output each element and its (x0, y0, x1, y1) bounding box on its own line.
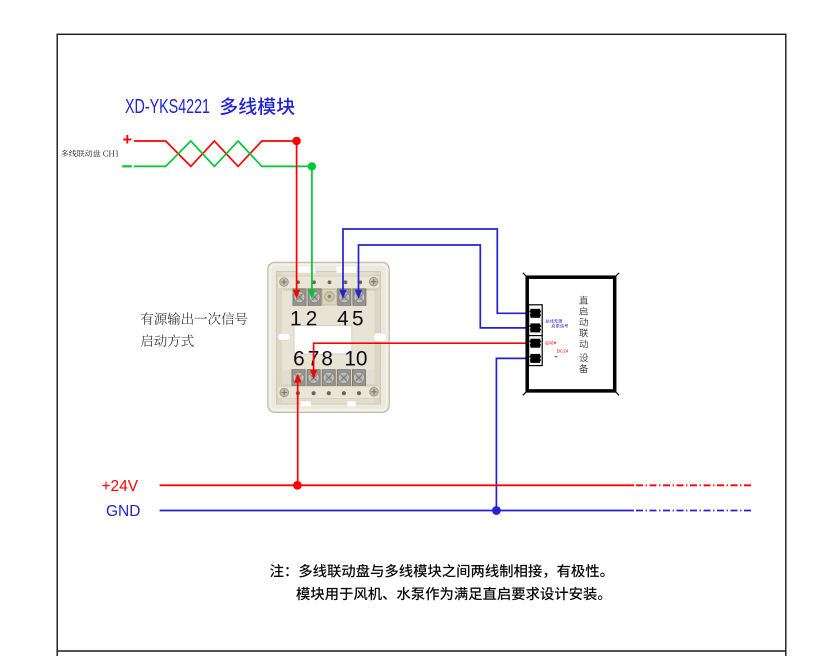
terminal 8 (322, 370, 335, 386)
device label blue line2 (551, 324, 568, 328)
wire blue terminal 4 to device pin1 (343, 229, 536, 313)
device label blue minus (555, 355, 558, 358)
junction dot +24V (293, 481, 302, 490)
device pin3 terminal (530, 339, 542, 348)
corner screw top-right (369, 277, 378, 286)
svg-text:5: 5 (352, 307, 364, 330)
minus terminal label (122, 165, 132, 167)
wire red twisted pair (134, 141, 297, 166)
wire red terminal 7 to device pin3 (314, 343, 536, 371)
terminal 10 (352, 370, 365, 386)
center cutout window (294, 326, 352, 354)
svg-text:GND: GND (106, 503, 140, 520)
device label blue line1 (545, 319, 562, 323)
title text 多线模块 (220, 97, 294, 115)
GND bus line dash-dot (636, 510, 753, 512)
svg-text:10: 10 (344, 347, 367, 370)
svg-text:6: 6 (293, 347, 305, 370)
+24V bus line dash-dot (636, 484, 753, 486)
wire blue terminal 5 to device pin2 (359, 245, 537, 328)
right mounting slot (373, 333, 387, 342)
note line 2 (296, 587, 602, 600)
wire red + down to terminal 1 (296, 141, 298, 291)
terminal 2 (308, 289, 321, 306)
left mounting slot (278, 333, 291, 340)
title block divider line (57, 650, 786, 652)
terminal 9 (337, 370, 350, 386)
wire blue device pin4 down to GND bus (496, 358, 536, 510)
module terminal box XD-YKS4221 (268, 262, 389, 412)
wire green - down to terminal 2 (311, 166, 313, 291)
device terminal strip lower (529, 336, 543, 366)
label 多线联动盘 CH1 (61, 150, 118, 157)
terminal 1 (293, 289, 306, 306)
terminal 7 (307, 370, 320, 386)
wire green twisted pair (134, 141, 312, 166)
wire red terminal 6 down to +24V bus (297, 381, 299, 485)
terminal 5 (353, 289, 366, 306)
junction dot green CH1- (308, 162, 316, 170)
svg-text:XD-YKS4221: XD-YKS4221 (125, 95, 210, 118)
device box 直启动联动设备 (527, 277, 615, 391)
svg-text:8: 8 (321, 347, 333, 370)
device vertical name 直启动联动设备 (579, 296, 588, 304)
svg-text:+24V: +24V (102, 478, 139, 495)
device pin4 terminal (530, 354, 542, 363)
svg-text:DC24: DC24 (557, 349, 569, 354)
corner screw bottom-right (370, 388, 379, 397)
bottom notch right (347, 401, 355, 406)
device terminal strip upper (529, 305, 543, 336)
top rim notch right (337, 267, 357, 273)
GND bus line solid (160, 510, 634, 512)
device pin2 terminal (530, 323, 542, 332)
device pin1 terminal (530, 309, 542, 318)
note line 1 (270, 564, 605, 578)
annotation 有源输出一次信号启动方式 (141, 312, 248, 325)
bottom wire-hole strip (278, 386, 380, 398)
junction dot red CH1+ (292, 137, 300, 145)
svg-text:+: + (122, 131, 132, 149)
corner screw bottom-left (280, 388, 289, 397)
junction dot GND (492, 506, 501, 515)
device label red 启动+ (545, 341, 553, 345)
terminal 4 (338, 289, 351, 306)
bottom notch left (301, 401, 311, 406)
top rim notch left (296, 267, 316, 273)
corner screw top-left (280, 278, 289, 287)
+24V bus line solid (160, 484, 634, 486)
center blank block (323, 289, 337, 305)
top wire-hole strip (278, 276, 380, 289)
terminal 6 (292, 370, 305, 386)
